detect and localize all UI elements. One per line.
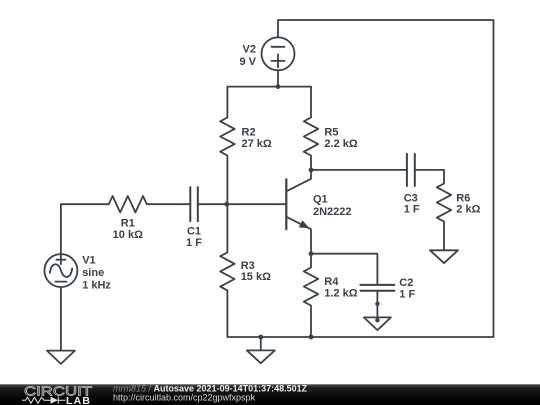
- svg-text:R3: R3: [241, 260, 255, 272]
- transistor Q1 2N2222: [286, 170, 311, 254]
- svg-text:http://circuitlab.com/cp22gpwf: http://circuitlab.com/cp22gpwfxpspk: [113, 393, 256, 403]
- svg-text:V2: V2: [243, 44, 256, 56]
- label R4 1.2 kOhm: [324, 276, 357, 300]
- svg-text:1.2 kΩ: 1.2 kΩ: [324, 288, 357, 300]
- ground R6: [430, 250, 458, 263]
- svg-text:27 kΩ: 27 kΩ: [242, 138, 272, 150]
- svg-text:R6: R6: [456, 192, 470, 204]
- capacitor C3: [407, 154, 444, 186]
- svg-text:1 F: 1 F: [404, 204, 420, 216]
- label C1 1 F: [186, 225, 202, 249]
- footer text line2: [113, 393, 256, 403]
- svg-text:15 kΩ: 15 kΩ: [241, 271, 271, 283]
- label R6 2 kOhm: [456, 192, 480, 215]
- resistor R3: [220, 204, 234, 337]
- svg-text:1 F: 1 F: [399, 289, 415, 301]
- svg-text:Q1: Q1: [313, 194, 328, 206]
- label R5 2.2 kOhm: [324, 127, 357, 150]
- resistor R5: [304, 87, 318, 170]
- logo CIRCUIT LAB: [22, 385, 92, 405]
- node junction R4-bottom: [309, 335, 314, 340]
- svg-text:1 F: 1 F: [186, 237, 202, 249]
- svg-text:1 kHz: 1 kHz: [82, 279, 111, 291]
- svg-text:R4: R4: [324, 276, 339, 288]
- voltage source V1 sine: [44, 204, 77, 350]
- node junction collector: [309, 168, 314, 173]
- svg-text:2.2 kΩ: 2.2 kΩ: [324, 138, 357, 150]
- resistor R1: [61, 196, 190, 212]
- label R2 27 kOhm: [242, 127, 272, 150]
- ground V1: [47, 351, 75, 364]
- svg-text:C1: C1: [187, 225, 201, 237]
- voltage source V2: [262, 37, 295, 86]
- footer text line1: [113, 383, 308, 393]
- svg-text:C2: C2: [399, 277, 413, 289]
- svg-text:R1: R1: [121, 218, 135, 230]
- ground C2: [364, 317, 391, 330]
- label C2 1 F: [399, 277, 415, 301]
- capacitor C1: [190, 187, 285, 221]
- label R1 10 kOhm: [113, 218, 143, 242]
- svg-text:sine: sine: [82, 267, 104, 279]
- ground main: [247, 337, 275, 363]
- svg-text:V1: V1: [82, 255, 95, 267]
- svg-text:LAB: LAB: [66, 395, 91, 405]
- wire bottom rail: [227, 336, 493, 338]
- node junction C2-ground: [375, 302, 379, 306]
- capacitor C2: [360, 285, 394, 320]
- wire top rail and right rail: [278, 20, 494, 337]
- wire collector to C3: [311, 169, 407, 171]
- svg-text:2N2222: 2N2222: [313, 206, 352, 218]
- svg-text:9 V: 9 V: [239, 56, 256, 68]
- node junction V2-bottom: [276, 84, 281, 89]
- svg-text:10 kΩ: 10 kΩ: [113, 229, 143, 241]
- node junction ground-tap: [258, 335, 263, 340]
- label V2 9 V: [239, 44, 256, 68]
- label C3 1 F: [404, 192, 420, 215]
- resistor R6: [437, 184, 451, 251]
- label Q1 2N2222: [313, 194, 352, 219]
- wire emitter to C2: [311, 254, 377, 285]
- node junction base/R3: [224, 202, 229, 207]
- svg-text:C3: C3: [404, 192, 418, 204]
- label R3 15 kOhm: [241, 260, 271, 283]
- svg-text:2 kΩ: 2 kΩ: [456, 204, 480, 216]
- label V1 sine 1 kHz: [82, 255, 111, 292]
- svg-text:R2: R2: [242, 127, 256, 139]
- node junction emitter: [309, 251, 314, 256]
- svg-text:R5: R5: [324, 127, 338, 139]
- wire R2/R5 top rail: [227, 86, 311, 88]
- resistor R2: [220, 87, 234, 205]
- resistor R4: [304, 254, 318, 337]
